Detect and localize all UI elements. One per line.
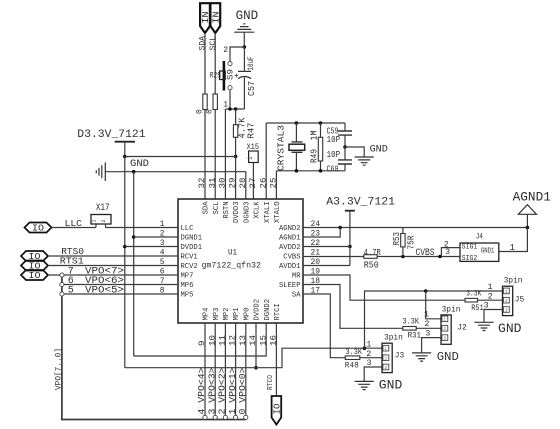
wire VPO<1> column (pin 12) (235, 323, 237, 415)
svg-text:RSTN: RSTN (223, 202, 231, 219)
svg-text:3pin: 3pin (384, 334, 403, 343)
svg-text:31: 31 (207, 178, 217, 189)
wire DGND1 row (pin 2) (134, 236, 178, 238)
connector J4 body (460, 243, 499, 261)
svg-text:R47: R47 (247, 123, 257, 139)
connector J2 body (441, 315, 451, 344)
wire GND stem to node (243, 32, 245, 47)
svg-text:SA: SA (292, 291, 301, 299)
junction GND/DGND1 row (132, 235, 136, 239)
wire AGND2 row (pin 24) (303, 227, 527, 229)
svg-text:U1: U1 (228, 248, 237, 258)
junction R47/D3.3V rail (234, 155, 238, 159)
wire VPO<3> column (pin 10) (214, 323, 216, 415)
svg-text:3.3K: 3.3K (403, 317, 420, 326)
svg-text:MP1: MP1 (233, 308, 241, 321)
crystal bottom lead (295, 153, 297, 171)
svg-text:SCL: SCL (213, 202, 221, 215)
J5 pin 3 box (503, 307, 509, 313)
svg-text:LLC: LLC (181, 225, 194, 233)
wire A3.3V stem (349, 211, 351, 247)
junction AGND2/AGND1 (338, 226, 342, 230)
svg-text:X15: X15 (247, 142, 260, 152)
svg-text:X17: X17 (96, 203, 110, 214)
capacitor C59 bottom lead (344, 135, 346, 147)
svg-text:C60: C60 (327, 165, 339, 175)
power bar D3.3V (115, 141, 135, 143)
wire LLC left (52, 227, 97, 229)
junction AGND/J4 drop (526, 226, 530, 230)
wire GND rail to DGND3 (105, 172, 246, 199)
connector IN (SDA) (200, 3, 210, 33)
wire D3.3V stem (124, 142, 126, 157)
svg-text:SDA: SDA (203, 201, 211, 215)
resistor R53 bottom lead (402, 247, 404, 257)
resistor R47 body (233, 125, 237, 138)
junction DVDD2/D3.3V run (254, 366, 258, 370)
svg-text:1: 1 (488, 282, 493, 292)
ground symbol (J3) (355, 381, 374, 389)
svg-text:R50: R50 (364, 261, 379, 271)
wire XTALO node line (276, 171, 345, 199)
wire X15 to pin 27 XCLK (252, 163, 254, 200)
port IO (RTS0) (21, 251, 48, 261)
connector IN (SCL) (210, 3, 220, 33)
svg-text:27: 27 (248, 178, 258, 189)
svg-text:AGND1: AGND1 (279, 234, 301, 242)
X17 pin2 lead (105, 224, 107, 228)
wire DVDD2 (pin 14) down (255, 323, 257, 368)
svg-text:DGND1: DGND1 (181, 234, 203, 242)
svg-text:IN: IN (211, 12, 222, 24)
svg-text:9: 9 (197, 341, 207, 347)
svg-text:C57: C57 (247, 81, 257, 96)
wire R51 to J5 pin2 (478, 299, 503, 301)
C57 polarity plus (235, 74, 239, 78)
J2 pin 3 box (442, 335, 448, 341)
wire RTS0 row (pin 4) (48, 255, 178, 257)
J5 pin 2 box (503, 297, 509, 303)
wire VPO<6> row (pin 7) (62, 284, 178, 286)
bus entry VPO<5> (60, 292, 64, 296)
port IO (RTS1) (21, 261, 48, 271)
svg-text:25: 25 (269, 178, 279, 189)
bus entry VPO<6> (60, 282, 64, 286)
svg-text:GND: GND (379, 378, 403, 392)
svg-text:GND: GND (236, 8, 259, 23)
bus entry VPO<0> (244, 415, 248, 419)
wire LLC to pin 1 (106, 227, 179, 229)
power symbol AGND1 triangle (518, 205, 536, 215)
wire VPO<4> column (pin 9) (204, 323, 206, 415)
svg-text:3pin: 3pin (504, 277, 523, 286)
svg-text:AGND2: AGND2 (279, 225, 301, 233)
port IO (LLC) (25, 223, 52, 233)
J2 pin 2 box (442, 326, 448, 332)
wire J3 pin3 to GND (364, 367, 382, 381)
wire SDA to pin 32 (204, 110, 206, 200)
svg-text:DVDD3: DVDD3 (233, 202, 241, 224)
crystal X15 top lead (295, 123, 297, 142)
svg-text:SIG1: SIG1 (462, 244, 478, 252)
J3 pin 1 box (383, 345, 389, 351)
wire DVDD1 row (pin 3) (125, 246, 178, 248)
svg-text:2: 2 (443, 327, 446, 332)
wire SLEEP (pin 18) to R31 (303, 285, 403, 329)
wire C57 bottom lead (243, 77, 245, 109)
svg-text:MP7: MP7 (181, 272, 194, 280)
wire crystal cap midpoint to ground (345, 147, 364, 157)
svg-text:RTCI: RTCI (274, 303, 282, 320)
wire drop to J2 pin1 (426, 291, 441, 319)
svg-text:DGND2: DGND2 (264, 299, 272, 321)
wire RTS1 row (pin 5) (48, 265, 178, 267)
junction R53/CVBS (401, 255, 405, 259)
svg-text:RCV1: RCV1 (181, 253, 198, 261)
junction D3.3V stem/rail (123, 155, 127, 159)
svg-text:5: 5 (68, 285, 74, 296)
wire AVDD1 row (pin 20) (303, 265, 350, 267)
svg-text:3: 3 (443, 337, 446, 342)
J2 pin 1 box (442, 316, 448, 322)
svg-text:1: 1 (510, 243, 515, 253)
svg-text:32: 32 (197, 178, 207, 189)
svg-text:gm7122_qfn32: gm7122_qfn32 (202, 261, 262, 271)
J3 pin 3 box (383, 364, 389, 370)
junction GND/C57/switch (243, 45, 247, 49)
svg-text:AVDD1: AVDD1 (279, 263, 301, 271)
svg-text:26: 26 (258, 178, 268, 189)
svg-text:J2: J2 (457, 323, 467, 333)
wire switch pin2 to GND node (230, 47, 244, 61)
svg-text:MP6: MP6 (181, 282, 194, 290)
svg-text:0 VPO<0>: 0 VPO<0> (238, 368, 248, 415)
svg-text:LLC: LLC (65, 219, 83, 229)
svg-text:RTCO: RTCO (267, 375, 275, 390)
svg-text:XTALO: XTALO (274, 202, 282, 224)
svg-text:11: 11 (218, 335, 228, 346)
svg-text:R48: R48 (345, 361, 359, 370)
svg-text:1M: 1M (309, 131, 319, 141)
wire VPO<7> row (pin 6) (48, 274, 178, 276)
wire R50 to CVBS node (377, 256, 460, 258)
svg-text:R49: R49 (309, 149, 319, 163)
junction R49 top (319, 121, 323, 125)
svg-text:AVDD2: AVDD2 (279, 244, 301, 252)
connector J5 body (503, 286, 513, 315)
junction D3.3V/DVDD1 row (123, 245, 127, 249)
capacitor C60 top lead (344, 147, 346, 160)
svg-text:10P: 10P (327, 150, 341, 160)
svg-text:3 VPO<3>: 3 VPO<3> (207, 368, 217, 415)
svg-text:R25: R25 (210, 72, 221, 81)
junction R49 bottom (319, 169, 323, 173)
wire GND vertical run (133, 172, 135, 356)
svg-text:30: 30 (218, 178, 228, 189)
resistor R53 body (401, 234, 405, 247)
svg-text:VPO[7..0]: VPO[7..0] (53, 348, 63, 390)
svg-text:CVBS: CVBS (283, 253, 300, 261)
resistor R50 body (364, 255, 377, 259)
svg-text:3: 3 (445, 248, 450, 257)
wire R47 top lead (235, 109, 237, 125)
J5 pin 1 box (503, 288, 509, 294)
svg-text:R53: R53 (392, 232, 402, 246)
bus entry VPO<1> (234, 415, 238, 419)
svg-text:CRYSTAL3: CRYSTAL3 (275, 125, 286, 171)
crystal plates (292, 142, 303, 152)
capacitor C59 plates (338, 131, 352, 135)
junction switch/node (228, 107, 232, 111)
svg-text:J4: J4 (476, 232, 483, 242)
wire VPO<0> column (pin 13) (245, 323, 247, 415)
svg-text:2: 2 (223, 46, 228, 55)
capacitor C60 plates (338, 160, 352, 164)
svg-text:MP0: MP0 (243, 308, 251, 321)
wire VPO<2> column (pin 11) (224, 323, 226, 415)
svg-text:MP3: MP3 (213, 308, 221, 321)
X17 pin1 lead (95, 224, 97, 228)
wire SCL to pin 31 (214, 110, 216, 200)
svg-text:R31: R31 (408, 332, 422, 341)
resistor R51 body (465, 298, 478, 302)
wire R31 to J2 pin2 (416, 327, 441, 329)
svg-text:2: 2 (384, 357, 387, 362)
junction GND stem (132, 170, 136, 174)
junction J2 pin1 drop (424, 289, 428, 293)
wire XTALI node line (266, 123, 345, 199)
ground symbol (top) (234, 24, 254, 32)
svg-text:S9: S9 (227, 69, 236, 80)
wire RTCI (pin 16) down (275, 323, 277, 396)
wire RSTN to pin 30 (224, 109, 226, 199)
svg-text:IO: IO (32, 223, 44, 234)
svg-text:GND: GND (437, 350, 459, 364)
ground symbol (crystal) (355, 157, 374, 165)
resistor R49 top lead (320, 123, 322, 137)
svg-text:R51: R51 (471, 304, 484, 313)
svg-text:15: 15 (258, 335, 268, 346)
svg-text:1: 1 (505, 290, 508, 295)
svg-text:1: 1 (92, 219, 98, 222)
bus entry VPO<4> (203, 415, 207, 419)
port IO (RTCO) (272, 396, 282, 425)
capacitor C57 plates (238, 71, 251, 78)
switch S9 bar (223, 61, 226, 91)
svg-text:XCLK: XCLK (254, 201, 262, 219)
junction J4 pin2 drop (438, 255, 442, 259)
svg-text:2: 2 (160, 230, 165, 239)
svg-text:DVDD1: DVDD1 (181, 244, 203, 252)
svg-text:CVBS: CVBS (416, 248, 435, 259)
port IO (VPO bus) (21, 270, 48, 280)
svg-text:XTALI: XTALI (264, 202, 272, 224)
wire J2 pin3 to GND (422, 338, 441, 353)
svg-text:IO: IO (29, 270, 41, 281)
bus entry VPO<2> (223, 415, 227, 419)
op-amp U1 gm7122_qfn32 chip body (178, 199, 303, 323)
connector J3 body (382, 343, 392, 372)
wire D3.3V vertical run (124, 157, 126, 368)
junction A3.3V/AVDD2 (348, 245, 352, 249)
crystal body box (289, 144, 305, 150)
svg-text:J3: J3 (395, 351, 405, 361)
wire AGND1 triangle stem (526, 214, 528, 227)
wire AGND to J4 pin1 (499, 228, 528, 252)
capacitor C60 bottom lead (344, 164, 346, 171)
resistor R48 body (345, 356, 360, 360)
bus VPO[7..0] vertical+bottom (62, 275, 246, 420)
svg-text:10P: 10P (327, 135, 341, 145)
svg-text:GND1: GND1 (481, 248, 495, 256)
junction D3.3V/SLEEP-riser/J3 pin1 (363, 346, 367, 350)
svg-text:A3.3V_7121: A3.3V_7121 (326, 197, 395, 209)
wire SA (pin 17) to R48 (303, 294, 345, 358)
resistor R_SDA 0ohm body (203, 94, 207, 110)
junction crystal top (295, 121, 299, 125)
svg-text:2 VPO<2>: 2 VPO<2> (218, 368, 228, 415)
wire VPO<5> row (pin 8) (62, 293, 178, 295)
svg-text:2: 2 (101, 219, 107, 222)
svg-text:GND: GND (130, 158, 149, 170)
wire C57 top lead (243, 47, 245, 71)
resistor R49 bottom lead (320, 161, 322, 171)
svg-text:1: 1 (247, 156, 254, 160)
bus entry VPO<7> (60, 273, 64, 277)
resistor R53 top lead (402, 228, 404, 234)
svg-text:MR: MR (292, 272, 301, 280)
svg-text:1: 1 (443, 318, 446, 323)
wire A3.3V to AVDD1 (349, 247, 351, 266)
junction R47/node (234, 107, 238, 111)
ground symbol (J5) (474, 322, 493, 330)
svg-text:1 VPO<1>: 1 VPO<1> (228, 368, 238, 415)
component X17 body (91, 215, 111, 225)
svg-text:3: 3 (384, 366, 387, 371)
wire MR (pin 19) to R51 (303, 275, 465, 300)
wire AGND1 row (pin 23) (303, 228, 340, 238)
capacitor C59 top lead (344, 123, 346, 131)
wire RSTN node line (225, 108, 244, 110)
svg-text:GND: GND (370, 145, 388, 156)
svg-text:AGND1: AGND1 (513, 190, 551, 205)
resistor R31 body (403, 327, 416, 331)
wire J4 pin2 (441, 248, 460, 257)
wire GND run to DGND2 (134, 323, 267, 356)
svg-text:0: 0 (195, 109, 204, 114)
wire CVBS row (pin 21) (303, 256, 364, 258)
svg-text:3: 3 (425, 328, 430, 338)
ground symbol (left, rotated) (96, 162, 105, 181)
svg-text:4 VPO<4>: 4 VPO<4> (197, 368, 207, 415)
svg-text:MP4: MP4 (203, 308, 211, 321)
svg-text:3: 3 (505, 308, 508, 313)
power bar A3.3V (345, 210, 355, 212)
svg-text:MP2: MP2 (223, 308, 231, 321)
switch pin 2 circle (228, 62, 232, 66)
wire switch pin1 to node (229, 90, 231, 109)
svg-text:3pin: 3pin (442, 305, 461, 314)
junction crystal bottom (295, 169, 299, 173)
svg-text:DVDD2: DVDD2 (254, 299, 262, 321)
svg-text:GND: GND (498, 322, 522, 336)
wire D3.3V bottom run (125, 348, 365, 368)
wire R48 to J3 pin2 (360, 357, 382, 359)
svg-text:1: 1 (424, 310, 429, 320)
switch S9 actuator box (220, 71, 226, 80)
wire R47 bottom lead (235, 137, 237, 156)
junction C59/C60/GND (343, 145, 347, 149)
svg-text:SLEEP: SLEEP (279, 282, 301, 290)
wire J5 pin3 to GND (484, 310, 503, 323)
svg-text:SCL: SCL (209, 36, 218, 51)
J3 pin 2 box (383, 355, 389, 361)
wire AVDD2 row (pin 22) (303, 246, 350, 248)
svg-text:29: 29 (228, 178, 238, 189)
resistor R_SCL 0ohm body (213, 94, 217, 110)
svg-text:J5: J5 (515, 294, 525, 304)
switch pin 1 circle (228, 86, 232, 90)
svg-text:SDA: SDA (199, 36, 208, 51)
svg-text:0: 0 (206, 109, 215, 114)
svg-text:MP5: MP5 (181, 291, 194, 299)
resistor R49 body (318, 137, 322, 161)
svg-text:DGND3: DGND3 (243, 202, 251, 224)
svg-text:3.3K: 3.3K (346, 348, 363, 357)
svg-text:VPO<5>: VPO<5> (85, 286, 124, 297)
svg-text:IO: IO (272, 404, 282, 415)
svg-text:1: 1 (223, 101, 228, 110)
svg-text:3: 3 (160, 239, 165, 248)
svg-text:RCV2: RCV2 (181, 263, 198, 271)
wire D3.3V rail to DVDD3 (125, 157, 236, 200)
svg-text:SIG2: SIG2 (462, 255, 478, 263)
bus entry VPO<3> (213, 415, 217, 419)
X15 box (249, 151, 259, 163)
ground symbol (J2) (412, 353, 431, 361)
svg-text:1: 1 (384, 347, 387, 352)
wire riser to pin1 line (365, 291, 503, 348)
wire J3 pin1 (365, 347, 383, 349)
svg-text:10: 10 (207, 335, 217, 346)
svg-text:28: 28 (238, 178, 248, 189)
svg-text:10uF: 10uF (248, 56, 256, 70)
svg-text:2: 2 (505, 299, 508, 304)
wire SCL upper (214, 33, 216, 94)
wire SDA upper (204, 33, 206, 94)
svg-text:D3.3V_7121: D3.3V_7121 (77, 129, 145, 141)
